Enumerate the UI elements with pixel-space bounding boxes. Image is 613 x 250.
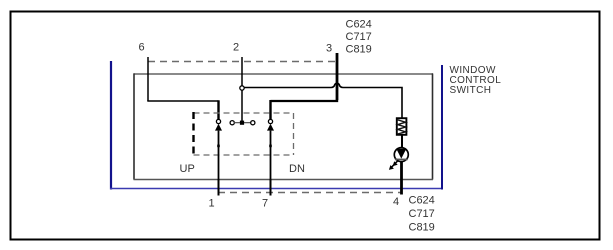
- resistor: [397, 118, 407, 135]
- svg-text:2: 2: [233, 42, 239, 54]
- switch body box bottom: [134, 179, 434, 181]
- svg-text:7: 7: [262, 198, 268, 210]
- svg-text:1: 1: [208, 198, 214, 210]
- wiper center dot: [240, 121, 244, 125]
- pin 3 wire: [336, 53, 339, 100]
- svg-text:C624: C624: [346, 19, 372, 31]
- blue highlight left edge: [110, 61, 112, 190]
- DN contact lead wire: [270, 131, 272, 196]
- svg-text:C819: C819: [346, 44, 372, 56]
- WINDOW CONTROL SWITCH label: [450, 65, 502, 96]
- switch dashed box top: [194, 112, 294, 114]
- LED lamp: [389, 148, 408, 170]
- UP fixed contact circle: [216, 119, 220, 123]
- wire resistor to LED: [401, 135, 403, 148]
- pin 1 wire tail: [218, 179, 220, 196]
- junction dot on UP lead: [217, 145, 220, 148]
- svg-text:DN: DN: [289, 163, 305, 175]
- svg-text:UP: UP: [180, 163, 195, 175]
- UP contact lead wire: [218, 131, 220, 196]
- wiper left circle: [230, 121, 234, 125]
- blue highlight right edge: [441, 65, 443, 190]
- component boundary dashed bottom: [218, 192, 401, 194]
- wiper bar: [234, 122, 252, 124]
- switch body box top: [134, 73, 434, 75]
- switch body box right: [432, 74, 434, 180]
- pin 7 wire tail: [270, 179, 272, 196]
- splice junction circle on pin 2 wire: [240, 86, 244, 90]
- jumper wire junction to resistor with hop over pin 3 wire: [244, 83, 402, 118]
- svg-text:C819: C819: [409, 222, 435, 234]
- blue highlight bottom edge: [110, 188, 443, 190]
- junction dot on DN lead: [269, 145, 272, 148]
- svg-text:SWITCH: SWITCH: [450, 85, 492, 96]
- wire pin3 to DN contact: [271, 100, 339, 102]
- UP movable contact arrow: [215, 124, 222, 131]
- svg-text:3: 3: [326, 43, 332, 55]
- switch dashed box right: [293, 113, 295, 155]
- svg-text:C717: C717: [409, 208, 435, 220]
- component boundary dashed top: [148, 61, 337, 63]
- DN movable contact arrow: [267, 124, 274, 131]
- svg-text:C717: C717: [346, 31, 372, 43]
- DN fixed contact circle: [268, 119, 272, 123]
- pin 2 wire: [241, 57, 243, 121]
- wire pin6 to UP contact: [147, 100, 218, 102]
- wiper right circle: [251, 121, 255, 125]
- pin 6 wire: [147, 57, 149, 101]
- switch dashed box bottom: [194, 154, 294, 156]
- svg-text:C624: C624: [409, 195, 435, 207]
- wire drop to UP contact: [217, 100, 219, 119]
- pin 4 wire: [400, 162, 403, 195]
- wire drop to DN contact: [269, 100, 271, 120]
- switch dashed box left: [192, 112, 194, 156]
- svg-text:4: 4: [393, 196, 399, 208]
- svg-text:6: 6: [138, 42, 144, 54]
- switch body box left: [133, 74, 135, 180]
